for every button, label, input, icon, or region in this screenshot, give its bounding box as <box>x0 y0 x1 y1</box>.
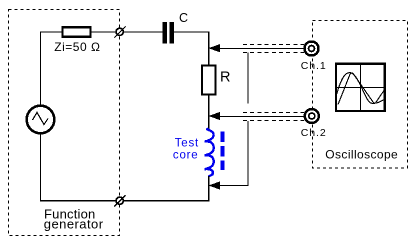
inductor L (test winding) <box>205 129 214 177</box>
svg-text:Ch.1: Ch.1 <box>301 60 327 72</box>
wire C to node A (top of R) <box>174 32 208 66</box>
wire generator positive lead (vertical) <box>40 32 42 106</box>
svg-text:Oscilloscope: Oscilloscope <box>325 148 398 162</box>
Ch.2 coax shield dashes <box>243 112 304 114</box>
wire to Zi <box>40 31 62 33</box>
test core (dashed core bar) <box>221 132 225 171</box>
function generator source symbol G1 <box>27 106 55 134</box>
Ch.2 probe arrow at node B <box>209 112 219 119</box>
svg-text:Zi=50 Ω: Zi=50 Ω <box>54 40 100 54</box>
wire node B (R to inductor) <box>208 95 210 130</box>
wire bottom return (inductor to generator) <box>41 134 209 201</box>
screen graticule <box>360 65 362 112</box>
return terminal (bottom, on generator box edge) <box>116 197 123 204</box>
svg-text:core: core <box>173 149 199 161</box>
BNC connector Ch.2 <box>305 109 319 123</box>
ground reference arrow at inductor bottom <box>209 182 219 189</box>
output terminal (top, on generator box edge) <box>116 28 123 35</box>
svg-text:C: C <box>179 11 188 25</box>
svg-text:generator: generator <box>44 217 104 232</box>
svg-text:Ch.2: Ch.2 <box>301 127 327 139</box>
Ch.1 probe arrow at node A <box>209 45 219 52</box>
resistor R <box>202 66 216 95</box>
wire shield link (lower segment, to ground node) <box>219 121 248 186</box>
Ch.2 coax center conductor <box>218 116 305 118</box>
BNC connector Ch.1 <box>305 42 319 56</box>
wire Zi to capacitor C <box>92 31 163 33</box>
oscilloscope screen frame <box>336 64 385 111</box>
function generator dashed box <box>9 10 120 236</box>
waveform trace 2 <box>337 73 385 104</box>
capacitor C <box>163 22 168 44</box>
Ch.1 coax shield dashes <box>243 44 304 46</box>
svg-text:R: R <box>220 70 230 86</box>
resistor Zi (50 ohm internal impedance) <box>63 27 91 37</box>
Ch.1 coax center conductor <box>218 48 305 50</box>
oscilloscope dashed box <box>313 21 408 169</box>
svg-text:Test: Test <box>175 137 199 149</box>
wire shield link (upper segment, from Ch.1 shield) <box>247 53 249 104</box>
waveform trace 1 <box>338 73 384 105</box>
